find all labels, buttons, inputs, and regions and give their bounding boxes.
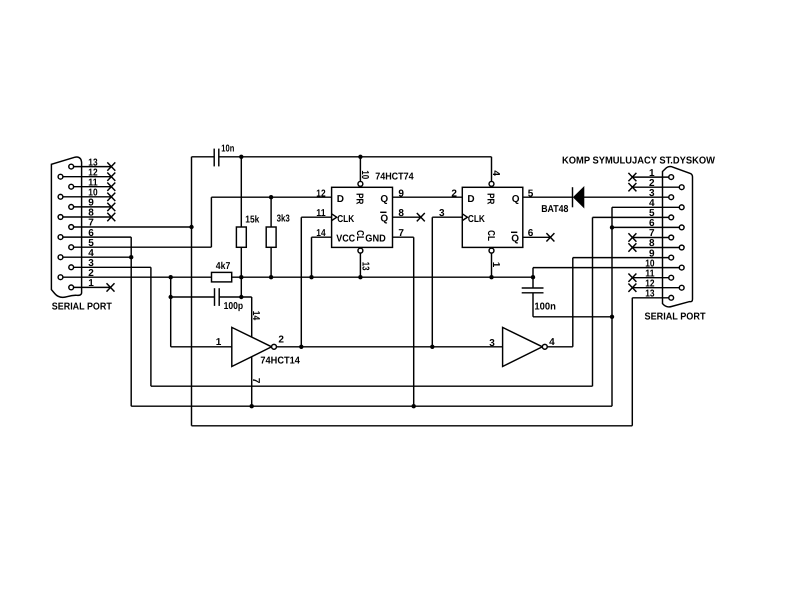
connector J1 pin 4 circle: [58, 255, 63, 260]
wire J1 pin 1 stub: [74, 286, 111, 288]
connector J2 pin 8 circle: [679, 245, 684, 250]
connector J1 pin 11 circle: [69, 184, 74, 189]
svg-text:7: 7: [250, 378, 261, 384]
connector J2 pin 12 circle: [679, 285, 684, 290]
no-connect X on J1 pin 8: [107, 213, 115, 221]
wire J2 pin 2 stub: [632, 186, 679, 188]
wire U2 CLK horizontal: [432, 216, 462, 218]
U2 Qbar overline: [511, 231, 517, 233]
connector J2 pin 2 circle: [679, 185, 684, 190]
svg-text:6: 6: [528, 228, 534, 239]
wire U3 pin 14 vertical into inverter top: [251, 297, 253, 337]
wire U1 Qbar stub: [393, 216, 421, 218]
wire J1 pin 2 rail (left of R3 4k7): [63, 276, 212, 278]
wire node A vertical (rail to 100p line to inverter input): [170, 277, 172, 347]
svg-text:2: 2: [278, 335, 284, 346]
svg-text:13: 13: [645, 289, 655, 300]
wire J2 pin 13 vertical: [631, 298, 633, 426]
wire J1 pin 3 vertical down: [150, 267, 152, 386]
svg-text:KOMP SYMULUJACY ST.DYSKOW: KOMP SYMULUJACY ST.DYSKOW: [562, 155, 716, 166]
wire U2 PR pin4 vertical: [491, 157, 493, 182]
wire 3k3 bottom lead: [270, 247, 272, 277]
connector J2 pin 11 circle: [669, 275, 674, 280]
connector J1 pin 12 circle: [58, 174, 63, 179]
svg-text:9: 9: [398, 188, 404, 199]
svg-text:GND: GND: [365, 234, 386, 245]
svg-text:100n: 100n: [534, 301, 556, 312]
wire J2 pin 13 stub: [632, 297, 669, 299]
junction 100n bottom line / J2 pin4-6 vertical: [610, 315, 614, 319]
flip-flop U1 74HCT74 body: [332, 187, 393, 247]
svg-text:1: 1: [490, 262, 501, 268]
wire inverter U3 output line to U4 input: [276, 346, 502, 348]
svg-text:PR: PR: [485, 193, 496, 205]
wire J1 pin 13 stub: [74, 166, 112, 168]
wire J2 pin 5 vertical: [592, 217, 594, 386]
resistor R2 3k3: [266, 227, 276, 247]
wire 100n top lead from rail: [532, 268, 534, 288]
no-connect X on J2 pin 1: [628, 173, 636, 181]
wire U3 GND pin7 vertical: [251, 357, 253, 407]
connector J2 pin 13 circle: [669, 295, 674, 300]
no-connect X on J1 pin 11: [107, 183, 115, 191]
wire U2 CLK vertical to inverter line: [431, 217, 433, 347]
wire U4 output to J2 pin 9 vertical: [572, 258, 574, 347]
wire J1 pin 11 stub: [74, 186, 112, 188]
wire U1 CLK vertical to inverter line: [300, 217, 302, 347]
wire U1 VCC pin14 horizontal: [312, 236, 332, 238]
wire 100n bottom lead: [532, 293, 534, 317]
capacitor C1 10n: [214, 149, 219, 167]
capacitor C2 100p: [215, 288, 220, 306]
svg-text:4: 4: [490, 170, 501, 176]
wire J2 pin 7 stub: [632, 237, 668, 239]
junction rail / U2 pin1: [489, 275, 493, 279]
wire U4 output horizontal: [547, 346, 573, 348]
wire J2 pin 11 stub: [632, 277, 668, 279]
connector J1 pin 8 circle: [58, 215, 63, 220]
inverter U4 output bubble: [542, 344, 547, 349]
wire J2 pin 9 stub: [573, 257, 669, 259]
wire 10n left lead vertical (pin7 net down to bottom bus): [191, 157, 193, 426]
junction rail / 15k-4k7: [239, 275, 243, 279]
inverter U3 74HCT14 triangle: [232, 327, 272, 366]
wire J1 pin 6 horizontal: [63, 236, 131, 238]
wire U1 CL pin13 vertical to rail: [359, 253, 361, 277]
svg-text:Q: Q: [511, 234, 519, 245]
wire U1 CLK horizontal: [301, 216, 331, 218]
wire J2 pin 4/6 vertical to GND bus: [611, 207, 613, 406]
junction node A rail / inverter input branch: [169, 275, 173, 279]
svg-text:7: 7: [398, 228, 404, 239]
wire 100p line: [171, 296, 215, 298]
wire 100n bottom line to J2 pin4/6 vertical: [533, 316, 612, 318]
connector J1 SERIAL PORT (left DB-13): [51, 157, 115, 313]
connector J2 pin 9 circle: [669, 255, 674, 260]
no-connect X on J2 pin 8: [628, 243, 636, 251]
wire J2 pin 6 stub: [612, 226, 679, 228]
junction top rail / 15k branch: [239, 155, 243, 159]
svg-text:CLK: CLK: [468, 214, 486, 225]
wire 15k branch vertical (top rail through 15k to 100p line): [240, 157, 242, 227]
connector J1 pin 13 circle: [69, 164, 74, 169]
connector J2 SERIAL PORT (right DB-13): [533, 155, 716, 322]
wire J1 pin 5 vertical up to D-line: [210, 197, 212, 247]
svg-text:5: 5: [528, 188, 534, 199]
connector J1 pin 10 circle: [58, 194, 63, 199]
svg-text:74HCT14: 74HCT14: [260, 356, 300, 367]
no-connect X on J2 pin 12: [628, 284, 636, 292]
diode D1 BAT48 (cathode bar): [572, 187, 574, 207]
no-connect X on J2 pin 7: [628, 233, 636, 241]
connector J1 pin 3 circle: [69, 265, 74, 270]
U1 CL bubble (pin 13): [358, 248, 363, 253]
connector J2 pin 10 circle: [679, 265, 684, 270]
diode D1 BAT48 (triangle): [574, 187, 584, 207]
junction inverter line / U1 CLK branch: [299, 345, 303, 349]
connector J2 pin 3 circle: [669, 195, 674, 200]
no-connect X on U1 Qbar: [417, 213, 425, 221]
connector J2 pin 5 circle: [669, 215, 674, 220]
svg-text:74HCT74: 74HCT74: [375, 171, 414, 182]
svg-text:8: 8: [398, 208, 404, 219]
no-connect X on J1 pin 9: [107, 203, 115, 211]
svg-text:1: 1: [216, 337, 222, 348]
svg-text:14: 14: [316, 228, 326, 239]
connector J2 pin 6 circle: [679, 225, 684, 230]
connector J2 pin 7 circle: [669, 235, 674, 240]
connector J1 pin 1 circle: [69, 285, 74, 290]
junction top rail / U1 PR: [358, 155, 362, 159]
svg-text:100p: 100p: [224, 301, 244, 312]
wire top rail 10n to FF PR pins: [219, 156, 492, 158]
svg-text:3: 3: [439, 208, 445, 219]
wire U2 CL pin1 vertical to rail: [491, 253, 493, 277]
wire bottom bus (J1 pin7 net to J2 pin13): [192, 425, 633, 427]
U2 PR bubble (pin 4): [489, 181, 494, 186]
connector J1 pin 9 circle: [69, 205, 74, 210]
wire 3k3 top lead: [270, 197, 272, 227]
wire J1 pin 12 stub: [63, 176, 111, 178]
svg-text:15k: 15k: [245, 214, 259, 225]
wire inverter U3 input: [171, 346, 232, 348]
junction rail end / 100n / J2 pin10: [531, 275, 535, 279]
no-connect X on J1 pin 10: [107, 193, 115, 201]
wire 10n left lead horizontal: [192, 156, 215, 158]
wire J2 pin 4 stub: [612, 206, 679, 208]
junction GND bus / U1 pin7: [412, 404, 416, 408]
connector J2 pin 4 circle: [679, 205, 684, 210]
svg-text:SERIAL PORT: SERIAL PORT: [645, 312, 706, 323]
svg-text:10: 10: [359, 170, 370, 179]
svg-text:Q: Q: [512, 194, 520, 205]
svg-text:VCC: VCC: [336, 234, 355, 245]
svg-text:3: 3: [489, 338, 495, 349]
wire GND bus horizontal: [131, 405, 612, 407]
svg-text:Q: Q: [380, 214, 388, 225]
wire U1 GND pin7 vertical to GND bus: [413, 237, 415, 406]
no-connect X on J1 pin 13: [107, 162, 115, 170]
U2 CLK input triangle: [462, 214, 467, 221]
wire D-line from J1 pin5 corner to U1 D: [211, 196, 331, 198]
svg-text:1: 1: [88, 278, 94, 289]
wire J2 pin 1 stub: [632, 176, 668, 178]
svg-text:PR: PR: [354, 193, 365, 205]
svg-text:CL: CL: [354, 230, 365, 241]
svg-text:13: 13: [359, 262, 370, 271]
no-connect X on J2 pin 11: [628, 274, 636, 282]
wire U1 PR pin10 vertical: [359, 157, 361, 182]
U1 PR bubble (pin 10): [358, 181, 363, 186]
connector J1 pin 7 circle: [69, 225, 74, 230]
junction rail / U1 pin13: [358, 275, 362, 279]
wire J1 pin 9 stub: [74, 206, 112, 208]
wire U2 Qbar stub: [523, 236, 551, 238]
resistor R1 15k: [236, 227, 246, 247]
svg-text:D: D: [467, 194, 474, 205]
wire J2 pin 12 stub: [632, 287, 679, 289]
wire J1 pin 4 horizontal: [63, 256, 131, 258]
svg-text:10n: 10n: [221, 144, 234, 155]
svg-text:2: 2: [451, 188, 457, 199]
wire J2 pin 10 stub: [533, 267, 679, 269]
capacitor C3 100n: [522, 288, 544, 293]
wire J2 pin 3 stub (from diode): [584, 196, 669, 198]
junction rail / 3k3 bottom: [269, 275, 273, 279]
svg-text:CL: CL: [485, 230, 496, 241]
inverter U4 74HCT14 triangle: [503, 327, 543, 366]
wire U2 Q to diode D1: [523, 196, 573, 198]
junction GND bus / U3 pin7: [250, 404, 254, 408]
wire J1 pin 6/4 vertical down to GND bus: [130, 237, 132, 406]
junction rail / U1 pin14: [309, 275, 313, 279]
wire VCC rail (right of R3 4k7): [232, 276, 533, 278]
junction node A 100p line: [169, 295, 173, 299]
svg-text:CLK: CLK: [337, 214, 355, 225]
wire J2 pin 5 stub: [593, 216, 669, 218]
no-connect X on U2 Qbar: [546, 233, 554, 241]
svg-text:Q: Q: [380, 194, 388, 205]
connector J1 pin 5 circle: [69, 245, 74, 250]
wire J1 pin 3 horizontal: [74, 266, 151, 268]
svg-text:D: D: [337, 194, 344, 205]
no-connect X on J1 pin 12: [107, 173, 115, 181]
wire U1 VCC pin14 vertical to rail: [311, 237, 313, 277]
junction 100p right / 15k branch: [239, 295, 243, 299]
no-connect X on J2 pin 2: [628, 183, 636, 191]
wire 15k bottom lead: [240, 247, 242, 297]
svg-text:4: 4: [549, 337, 555, 348]
wire J1 pin 5 horizontal: [74, 246, 212, 248]
junction inverter line / U2 CLK branch: [430, 345, 434, 349]
svg-text:SERIAL PORT: SERIAL PORT: [52, 302, 112, 313]
resistor R3 4k7: [212, 272, 232, 282]
svg-text:14: 14: [250, 311, 261, 321]
wire U1 GND pin7 horizontal: [393, 236, 414, 238]
wire U1 Q to U2 D: [393, 196, 463, 198]
wire J1 pin 7 to node at 10n branch: [74, 226, 192, 228]
svg-text:3k3: 3k3: [277, 213, 291, 224]
U1 Qbar overline: [380, 211, 386, 213]
inverter U3 output bubble: [272, 344, 277, 349]
connector J1 pin 6 circle: [58, 235, 63, 240]
svg-text:BAT48: BAT48: [541, 204, 569, 215]
no-connect X on J1 pin 1: [107, 283, 115, 291]
wire 100p right to corner: [219, 296, 252, 298]
svg-text:11: 11: [316, 208, 326, 219]
connector J1 body outline: [51, 157, 81, 297]
wire J1 pin 8 stub: [63, 216, 111, 218]
junction J1 pin7 / 10n net: [189, 225, 193, 229]
wire J2 pin 8 stub: [632, 247, 679, 249]
connector J1 pin 2 circle: [58, 275, 63, 280]
wire J1 pin 10 stub: [63, 196, 111, 198]
junction J1 pin4 / pin6 vertical: [129, 255, 133, 259]
junction D-line / 3k3 top: [269, 195, 273, 199]
svg-text:12: 12: [316, 188, 326, 199]
connector J2 pin 1 circle: [669, 175, 674, 180]
U2 CL bubble (pin 1): [489, 248, 494, 253]
wire mid bus J1-pin3 to J2-pin5: [151, 385, 593, 387]
U1 CLK input triangle: [332, 214, 337, 221]
junction J2 pin6 / pin4 vertical: [610, 225, 614, 229]
flip-flop U2 74HCT74 body: [462, 187, 523, 247]
svg-text:4k7: 4k7: [216, 261, 231, 272]
connector J2 body outline: [663, 167, 693, 307]
